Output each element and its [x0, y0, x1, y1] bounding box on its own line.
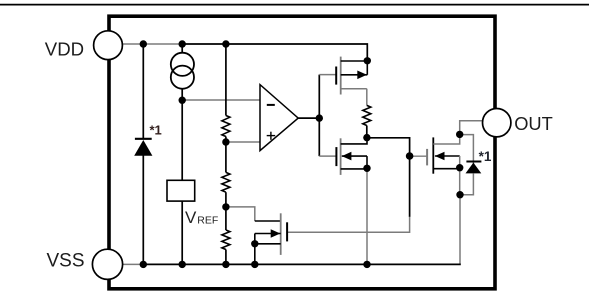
wire VDD rail black: [182, 44, 367, 61]
node dot rail-csource: [179, 40, 186, 47]
VREF box: [167, 180, 195, 201]
svg-text:*1: *1: [479, 149, 492, 164]
node dot VSS-vref: [179, 261, 186, 268]
resistor R1: [222, 116, 230, 137]
pin VDD: [94, 31, 123, 60]
node dot VSS-chain: [222, 261, 229, 268]
wire OUT to drain junction: [460, 121, 483, 135]
wire diode branch lower: [142, 155, 144, 264]
node dot Q3 drain: [456, 131, 463, 138]
wire current source to node: [181, 88, 183, 100]
wire Q1 gate lead: [319, 74, 336, 76]
pin OUT: [483, 109, 511, 137]
wire Q4 source to VSS: [254, 244, 256, 265]
svg-text:REF: REF: [197, 214, 218, 226]
resistor R4: [363, 105, 371, 125]
wire tap2 to Q4 drain: [226, 207, 255, 221]
wire node to VREF: [181, 100, 183, 180]
node dot Q2 source: [363, 165, 370, 172]
wire drain junction to D2: [460, 135, 474, 166]
wire VSS rail gray: [123, 263, 144, 265]
wire VDD rail gray: [122, 43, 182, 45]
pin VSS: [92, 249, 122, 279]
wire R2 to tap2: [225, 192, 227, 230]
page top rule: [0, 4, 589, 6]
node dot tap2: [222, 203, 229, 210]
node dot VSS-Q4: [251, 261, 258, 268]
node dot tap1: [222, 138, 229, 145]
wire Q3 gate lead: [410, 155, 428, 157]
wire Q1 drain to R4: [366, 89, 368, 106]
transistor Q2 (NMOS): [336, 138, 367, 175]
svg-text:VDD: VDD: [45, 39, 84, 60]
transistor Q1 (PMOS): [336, 57, 367, 95]
svg-text:V: V: [185, 208, 197, 227]
diode D1: [134, 139, 152, 156]
diode D2: [466, 162, 482, 174]
wire current source branch top: [181, 44, 183, 53]
op-amp U1: [260, 85, 298, 151]
wire Q3 source down: [459, 168, 461, 195]
node dot VSS-side junction: [456, 191, 463, 198]
node dot gate junction: [406, 152, 414, 160]
wire D2 anode down: [460, 173, 473, 194]
wire op-amp plus input: [226, 141, 260, 143]
node dot Q3 source: [456, 164, 463, 171]
wire Q2 gate lead: [319, 155, 336, 157]
node dot VSS-Q2: [363, 261, 370, 268]
transistor Q3 (output NMOS): [427, 134, 460, 173]
node dot csource out: [179, 97, 186, 104]
resistor R3: [222, 230, 230, 250]
wire R4 to node: [366, 126, 368, 138]
wire gate bus vertical: [318, 75, 320, 157]
node dot Q4 source: [251, 240, 258, 247]
wire resistor chain top: [225, 44, 227, 116]
frame border: [109, 16, 495, 289]
node dot rail-diode: [140, 40, 147, 47]
node dot Q1 source: [364, 57, 371, 64]
node dot VSS-diode: [140, 261, 147, 268]
resistor R2: [222, 172, 230, 192]
svg-text:OUT: OUT: [514, 113, 553, 134]
transistor Q4 (bottom, mirrored): [255, 213, 287, 255]
wire gate junction down gray: [287, 217, 410, 232]
node dot opamp out: [316, 114, 323, 121]
wire gate junction down: [409, 155, 411, 217]
wire R1 to tap1: [225, 137, 227, 173]
wire VSS rail black: [143, 263, 461, 265]
wire junction down to rail: [459, 195, 461, 264]
current source I1: [171, 53, 194, 89]
svg-text:VSS: VSS: [47, 251, 85, 272]
wire Q4 drain lead: [255, 220, 281, 222]
wire node to gate junction: [367, 138, 410, 155]
svg-text:*1: *1: [150, 123, 162, 138]
wire R3 to VSS: [225, 250, 227, 265]
wire Q2 source to VSS: [366, 168, 368, 264]
wire op-amp minus input: [182, 99, 260, 101]
wire VREF to VSS: [181, 201, 183, 264]
node dot rail-chain: [222, 40, 229, 47]
wire diode branch upper: [142, 44, 144, 139]
wire op-amp output: [298, 117, 319, 119]
node dot Q2 drain: [363, 134, 370, 141]
